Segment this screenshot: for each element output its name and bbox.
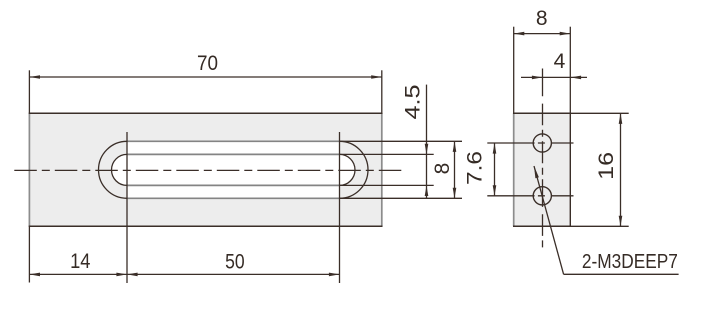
arrow 4.5 lower (tip up at inner slot bottom) <box>425 185 429 196</box>
svg-text:50: 50 <box>225 251 245 274</box>
slot through hole white region (full slot with round caps) <box>112 154 356 185</box>
dimension line 4 <box>521 76 587 78</box>
arrow 8R right <box>560 32 571 36</box>
arrow 14 left <box>29 273 40 277</box>
dimension line 8 left view (vertical) <box>454 141 456 198</box>
arrow 4 right (tip left at right edge) <box>571 76 582 80</box>
end view right edge <box>569 113 571 226</box>
arrow 8L up <box>453 141 457 152</box>
leader underline <box>564 273 679 275</box>
horizontal centerline of slot <box>14 169 404 171</box>
slot through hole right arc <box>340 154 356 185</box>
arrow 14 right <box>116 273 127 277</box>
slot counterbore top line (gray) <box>127 140 340 142</box>
slot through hole top line (gray) <box>127 153 340 155</box>
dimension line 16 <box>620 113 622 226</box>
extension line bottom left <box>28 226 30 282</box>
arrow 4 left (tip right at centerline) <box>532 76 543 80</box>
leader arrow <box>534 166 539 178</box>
hole circle lower <box>533 187 551 205</box>
leader line to lower hole <box>534 166 564 274</box>
dimension 8 end view extension right <box>569 27 571 114</box>
svg-text:8: 8 <box>536 7 548 30</box>
plate bottom edge <box>29 225 383 227</box>
dimension line 7.6 <box>494 143 496 196</box>
arrow 16 down <box>619 216 623 227</box>
svg-text:14: 14 <box>70 250 91 273</box>
arrow 8L down <box>453 188 457 199</box>
slot counterbore bottom line (gray) <box>127 197 340 199</box>
svg-text:7.6: 7.6 <box>464 151 487 185</box>
vertical centerline end view (dash-dot) <box>542 69 544 249</box>
dimension 70 extension line left <box>28 70 30 113</box>
end view top edge <box>513 112 571 114</box>
svg-text:16: 16 <box>595 152 618 180</box>
wire left silhouette edge of end view <box>513 113 515 226</box>
slot through hole bottom line (gray) <box>127 184 340 186</box>
svg-text:4.5: 4.5 <box>402 85 425 120</box>
centerline upper hole (horizontal) <box>487 142 573 144</box>
hole circle upper <box>533 134 551 152</box>
dimension 16 extension top <box>570 112 628 114</box>
extension line inner slot top edge <box>340 153 434 155</box>
svg-text:4: 4 <box>554 50 566 73</box>
end view plate body <box>514 113 571 226</box>
arrow 70 left <box>29 75 40 79</box>
dimension 16 extension bottom <box>570 225 628 227</box>
dimension 70 extension line right <box>381 70 383 113</box>
extension line outer slot top edge <box>340 140 463 142</box>
svg-text:2-M3DEEP7: 2-M3DEEP7 <box>582 251 678 273</box>
svg-text:8: 8 <box>431 163 454 175</box>
arrow 4.5 upper (tip down at inner slot top) <box>425 144 429 155</box>
plate body (left view, top plate outline) <box>29 113 381 226</box>
wire right silhouette edge of plate <box>381 113 383 226</box>
svg-text:70: 70 <box>197 52 218 75</box>
wire left silhouette edge of plate <box>28 113 30 226</box>
slot counterbore white region (straight section only) <box>127 141 340 198</box>
arrow 7.6 up <box>493 143 497 154</box>
arrow 8R left <box>514 32 525 36</box>
dimension line 14 / 50 <box>29 273 339 275</box>
arrow 50 left <box>127 273 138 277</box>
dimension line 70 <box>29 76 381 78</box>
extension line outer slot bottom edge <box>340 197 463 199</box>
arrow 7.6 down <box>493 185 497 196</box>
slot through hole left arc <box>112 154 128 185</box>
slot counterbore left arc <box>99 141 127 198</box>
extension line slot left arc center <box>126 132 128 283</box>
arrow 50 right <box>329 273 340 277</box>
dimension line 4.5 (vertical) <box>426 85 428 199</box>
slot counterbore right arc <box>340 141 369 198</box>
extension line inner slot bottom edge <box>340 184 434 186</box>
dimension 8 end view extension left <box>513 27 515 114</box>
dimension line 8 end view <box>514 33 571 35</box>
plate top edge <box>29 112 383 114</box>
arrow 16 up <box>619 113 623 124</box>
centerline lower hole (horizontal) <box>487 195 573 197</box>
arrow 70 right <box>371 75 382 79</box>
extension line slot right arc center <box>339 132 341 283</box>
end view bottom edge <box>513 225 571 227</box>
